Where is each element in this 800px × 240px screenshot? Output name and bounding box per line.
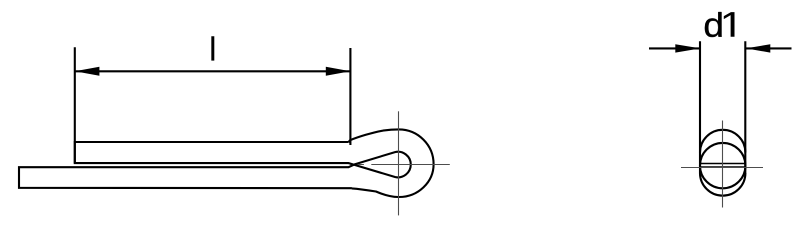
end view horizontal centerline [681,167,763,169]
pin upper prong [75,142,354,165]
side view horizontal centerline dash [358,164,364,166]
label l [211,36,214,60]
pin eye outer outline [348,129,433,197]
dimension d1 leader line right [746,47,792,49]
end view slot line lower [700,166,745,168]
side view horizontal centerline [371,164,450,166]
dimension d1 extension line left [699,41,701,173]
label d1 [705,12,735,37]
end view eye silhouette bottom arc [700,173,745,196]
end view slot line upper [700,163,745,165]
dimension d1 leader line left [649,47,700,49]
end view wire circle [700,143,745,188]
dimension d1 arrowhead left [675,44,700,52]
pin lower prong [19,165,354,188]
dimension d1 arrowhead right [746,44,770,52]
end view vertical centerline [722,121,724,208]
dimension l arrowhead right [326,67,351,76]
dimension l extension line right [349,48,351,145]
pin eye inner slot [354,152,411,178]
dimension l line [75,70,351,72]
dimension l arrowhead left [75,67,100,76]
dimension l extension line left [74,47,76,163]
end view eye silhouette top arc [700,130,745,153]
dimension d1 extension line right [744,41,746,173]
side view vertical centerline [398,111,400,215]
